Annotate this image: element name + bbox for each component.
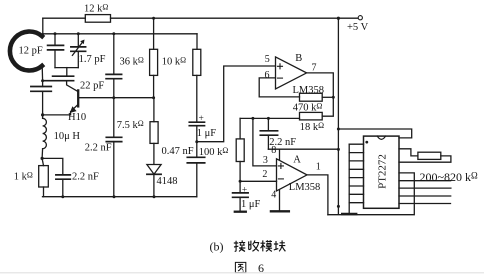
node rail2-1.7pF <box>77 32 80 35</box>
svg-text:2.2 nF: 2.2 nF <box>85 143 112 154</box>
svg-text:+5 V: +5 V <box>347 22 369 33</box>
glyph kuai <box>274 240 286 251</box>
node antenna/collector <box>41 79 44 82</box>
wire data output D0 <box>399 180 451 182</box>
wire 36k bottom to base node <box>153 75 155 97</box>
capacitor C 2.2nF emitter bypass <box>42 158 63 175</box>
node junction rail1 +5V column <box>337 17 340 20</box>
node +5V bottom <box>337 205 340 208</box>
svg-text:1.7 pF: 1.7 pF <box>79 54 106 65</box>
wire op-amp B output (pin 7) <box>307 73 334 116</box>
svg-text:12 pF: 12 pF <box>19 46 43 57</box>
svg-text:+: + <box>242 185 247 195</box>
loop antenna L1 <box>10 31 42 70</box>
wire 0.47nF bottom corner to ground rail <box>196 163 198 197</box>
wire 7.5k bottom to diode <box>153 143 155 164</box>
svg-text:8: 8 <box>271 145 276 156</box>
svg-text:1 μF: 1 μF <box>241 199 261 210</box>
wire pin 8 V+ to +5V column <box>268 148 338 150</box>
wire bottom route to PT2272 DIN <box>328 173 414 215</box>
svg-text:200~820 kΩ: 200~820 kΩ <box>420 170 479 184</box>
wire base bias horizontal <box>79 97 154 99</box>
op-amp A minus sign <box>278 178 283 180</box>
node bias-2.2nF <box>267 117 270 120</box>
resistor R 18k <box>300 112 323 120</box>
svg-text:0.47 nF: 0.47 nF <box>162 146 194 157</box>
wire bias node horizontal (18k left to 100k top) <box>240 117 299 119</box>
resistor R 7.5k <box>150 122 158 144</box>
node base-22pF column <box>112 96 115 99</box>
wire antenna top end to rail2 corner <box>41 34 44 36</box>
node inductor bottom <box>41 157 44 160</box>
svg-text:5: 5 <box>265 54 270 65</box>
node bias-pin3 <box>251 117 254 120</box>
wire op-amp B -input (pin 6) to feedback <box>259 78 299 97</box>
svg-text:(b): (b) <box>210 239 224 253</box>
wire op-amp A output (pin 1) <box>307 175 328 215</box>
node +5V-VCC loop <box>337 128 340 131</box>
capacitor C 0.47nF <box>187 157 204 163</box>
wire +5V vertical column <box>337 18 339 213</box>
svg-text:LM358: LM358 <box>293 85 325 96</box>
resistor R 200~820k <box>418 152 441 159</box>
svg-text:7: 7 <box>312 63 317 74</box>
node 1uF/0.47nF junction <box>195 140 198 143</box>
wire diode cathode to ground rail <box>153 174 155 196</box>
wire resistor return to OSC pin <box>399 156 451 162</box>
inductor L 10uH <box>42 115 44 118</box>
ground bar below 1uF <box>235 211 246 213</box>
wire left column rail1 to rail2 <box>42 18 44 34</box>
svg-text:4: 4 <box>271 190 276 201</box>
node emitter/inductor <box>41 113 44 116</box>
svg-text:PT2272: PT2272 <box>377 154 389 189</box>
resistor R 470k feedback <box>300 93 323 101</box>
wire junction to 0.47nF <box>196 142 198 158</box>
wire rail2 corner down to 10k <box>196 34 198 50</box>
svg-text:2.2 nF: 2.2 nF <box>72 171 99 182</box>
svg-text:B: B <box>295 53 302 64</box>
op-amp B minus sign <box>278 77 283 79</box>
capacitor C 2.2nF base <box>106 137 121 141</box>
wire 10k bottom to 1uF <box>196 75 198 122</box>
node rail2-12pF <box>54 32 57 35</box>
IC pin1 dot <box>365 141 368 144</box>
wire ground rail (emitter common) <box>43 196 197 198</box>
capacitor C 1uF at pin 2 <box>239 181 241 193</box>
svg-text:10μ H: 10μ H <box>54 131 81 142</box>
resistor R 12k <box>85 15 110 23</box>
wire bias to op-amp A +input (pin 3) <box>253 118 277 165</box>
caption chinese 接收模块 <box>234 240 286 251</box>
node 100k/pin2/1uF <box>239 180 242 183</box>
transistor Q H10 emitter with arrow <box>71 104 78 111</box>
svg-text:6: 6 <box>265 70 270 81</box>
caption 图 6 <box>235 261 264 275</box>
node rail-2.2nF mid <box>113 195 116 198</box>
wire tank bottom <box>55 67 78 69</box>
wire to op-amp A -input (pin 2) <box>240 180 276 182</box>
wire tank top rail2 <box>43 33 197 35</box>
wire data output D3 <box>399 203 451 205</box>
capacitor C variable 1.7pF <box>77 34 79 47</box>
node base-36k/7.5k <box>152 96 155 99</box>
svg-text:+: + <box>199 114 204 124</box>
ground bar address bus <box>342 213 356 215</box>
node junction rail1-36k <box>152 17 155 20</box>
node rail-diode <box>153 195 156 198</box>
node +5V-pin8 wire <box>337 148 340 151</box>
capacitor C 22pF base (x114 column) <box>113 34 115 75</box>
wire VCC loop over IC to pin 18 <box>338 129 411 138</box>
wire collector link to transistor <box>67 81 78 92</box>
pin 8 stub into op-amp A <box>279 149 281 160</box>
wire 470k right lead <box>322 96 333 98</box>
resistor R 100k <box>236 139 244 162</box>
wire +5V top rail right segment <box>111 17 358 19</box>
capacitor C 1uF polarized (detector) <box>189 122 204 126</box>
glyph mo <box>261 240 273 251</box>
IC U2 PT2272 body <box>364 136 400 208</box>
pin 4 stub and ground bar <box>279 190 281 211</box>
node rail2-22pF <box>112 32 115 35</box>
op-amp U1B LM358 triangle <box>276 57 307 89</box>
capacitor C 2.2nF bias bypass <box>267 118 269 130</box>
wire OSC pin to resistor <box>399 149 418 156</box>
resistor R 1k <box>42 158 43 165</box>
scan artifact bottom line <box>0 272 484 274</box>
wire address bus vertical <box>348 144 350 213</box>
wire bias corner down to 100k <box>239 118 241 138</box>
terminal +5V open circle <box>358 16 362 20</box>
capacitor C 12pF <box>54 34 56 46</box>
glyph shou <box>249 240 259 251</box>
capacitor C emitter-collector (wide) <box>42 81 44 87</box>
svg-text:LM358: LM358 <box>289 182 321 193</box>
wire 7.5k top lead <box>153 98 155 122</box>
diode D 4148 <box>147 165 161 175</box>
svg-text:2: 2 <box>262 169 267 180</box>
glyph jie <box>234 240 246 251</box>
wire antenna bottom end down <box>41 66 43 81</box>
capacitor C 22pF coupling to collector node <box>66 68 68 77</box>
svg-text:3: 3 <box>263 155 268 166</box>
svg-text:H10: H10 <box>68 112 86 123</box>
node rail-2.2nF left <box>61 195 64 198</box>
IC notch <box>377 136 385 139</box>
wire data output D2 <box>399 195 451 197</box>
wire 100k bottom to -input node <box>239 162 241 182</box>
wire 36k feed from rail1 crossing rail2 <box>153 18 155 49</box>
svg-text:1 μF: 1 μF <box>197 128 217 139</box>
wire emitter to left column <box>43 112 71 115</box>
transistor Q H10 base bar <box>77 90 79 106</box>
resistor R 10k <box>193 49 201 75</box>
svg-text:4148: 4148 <box>157 176 178 187</box>
IC address pins A0-A7 stubs <box>349 144 363 203</box>
glyph tu <box>235 262 245 272</box>
wire +5V top rail left segment <box>43 17 86 19</box>
wire data output D1 <box>399 187 451 189</box>
op-amp U1A LM358 triangle <box>277 159 308 191</box>
wire 1uF to junction <box>196 126 198 142</box>
svg-text:A: A <box>293 154 301 165</box>
op-amp A plus sign <box>278 163 283 168</box>
svg-text:1: 1 <box>316 162 321 173</box>
svg-text:22 pF: 22 pF <box>80 80 104 91</box>
resistor R 36k <box>150 49 158 75</box>
node output-470k <box>332 96 335 99</box>
op-amp B plus sign <box>278 64 283 69</box>
wire detector junction to op-amp B +input (pin 5) <box>197 66 276 142</box>
